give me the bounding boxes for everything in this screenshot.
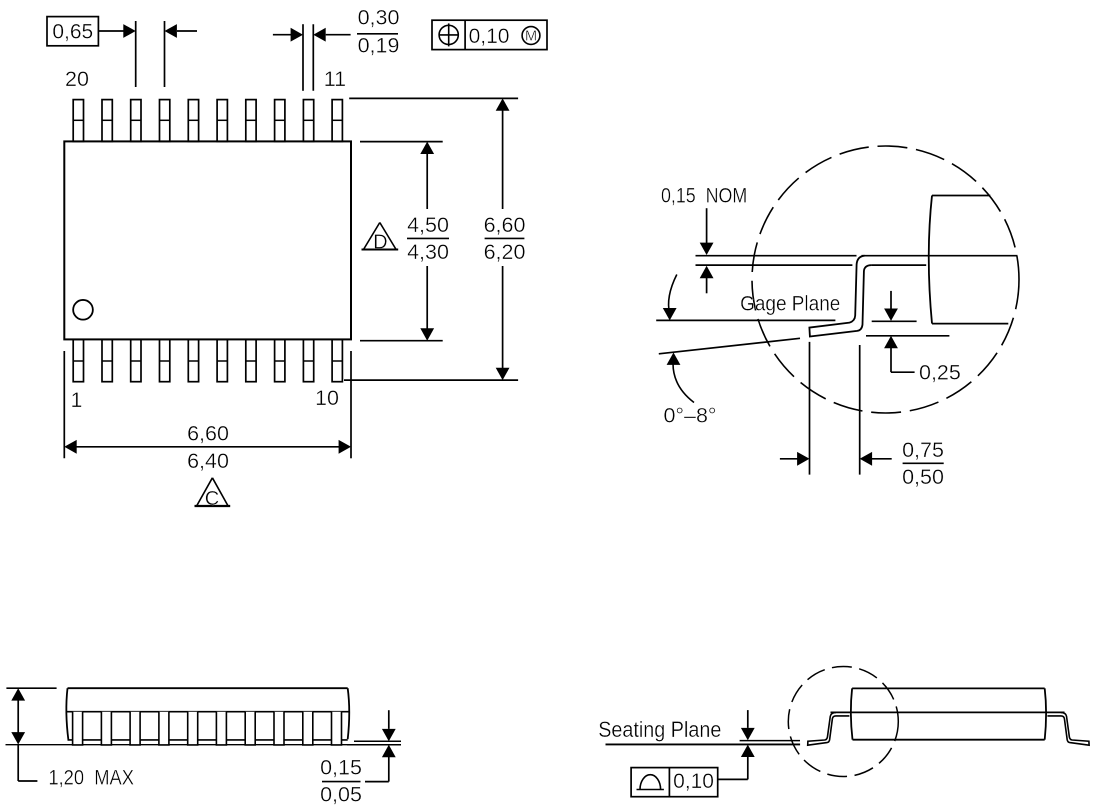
pin bottom row #1 [73, 339, 83, 381]
lead top surface line / extension [696, 255, 1018, 257]
svg-text:0,50: 0,50 [902, 465, 944, 489]
extension line pin18 center [135, 21, 137, 87]
lead bend outline [809, 256, 871, 337]
extension line body left [63, 351, 65, 458]
dimension line 6,60/6,20 [496, 98, 510, 380]
svg-text:0,10: 0,10 [469, 25, 510, 48]
0,15 NOM down arrow [700, 208, 714, 255]
end view body outline [851, 688, 1046, 739]
svg-text:0,65: 0,65 [52, 21, 93, 44]
dimension 0,30/0,19 right arrow [313, 28, 350, 42]
svg-text:0,19: 0,19 [358, 34, 400, 58]
svg-text:6,60: 6,60 [187, 422, 229, 446]
pin bottom row #7 [246, 339, 256, 381]
svg-text:0°–8°: 0°–8° [663, 404, 716, 428]
dimension line 4,50/4,30 [420, 142, 434, 341]
standoff down arrow [382, 710, 396, 741]
extension line body top left [6, 687, 56, 689]
svg-text:0,25: 0,25 [919, 361, 961, 385]
pin bottom row #8 [275, 339, 285, 381]
gage plane line right segment [872, 320, 917, 322]
seating up arrow [741, 745, 755, 780]
lead bottom surface extension line [696, 264, 853, 266]
pin bottom row #9 [303, 339, 313, 381]
seating upper short line [740, 740, 800, 742]
svg-text:0,75: 0,75 [902, 438, 944, 462]
end view right lead [1047, 712, 1089, 745]
extension line pin12 right edge [312, 24, 314, 91]
dimension 0,65 pitch: boxed value [47, 17, 98, 46]
standoff upper line [354, 740, 401, 742]
pin top row #14 [246, 100, 256, 142]
standoff lower line [347, 744, 401, 746]
side view pin 2 [101, 712, 111, 745]
side view pin 6 [216, 712, 226, 745]
svg-text:1: 1 [71, 388, 83, 412]
dimension 0,65 leader arrow [98, 24, 135, 38]
foot angle extension line 0-8 deg [659, 338, 800, 354]
svg-text:C: C [205, 488, 219, 510]
pin 1 index circle [73, 300, 93, 320]
angle leader arc to gage plane [663, 275, 677, 321]
package body top view [64, 141, 351, 339]
gage plane line [656, 319, 835, 321]
detail view dashed circle [752, 146, 1019, 413]
dimension 0,65 opposing arrow [165, 24, 198, 38]
side view lead plane line [66, 711, 351, 713]
dimension 0,30/0,19 left arrow [273, 28, 303, 42]
seating plane line [6, 744, 348, 746]
dimension text 0,75 over 0,50 [902, 438, 944, 489]
extension line top pin tips [349, 97, 518, 99]
side view body outline [66, 688, 349, 740]
dimension 0,75/0,50 left arrow [780, 452, 810, 466]
dimension 0,25 down arrow [884, 291, 898, 321]
side view pin 5 [188, 712, 198, 745]
svg-text:6,40: 6,40 [187, 449, 229, 473]
svg-text:6,20: 6,20 [484, 240, 526, 264]
svg-text:0,15: 0,15 [320, 756, 362, 780]
extension line body bottom [360, 340, 443, 342]
svg-text:M: M [525, 29, 537, 45]
pin bottom row #10 [332, 339, 342, 381]
dimension line 1,20 MAX [11, 688, 25, 744]
svg-text:1,20 MAX: 1,20 MAX [48, 766, 134, 790]
lead inner top line to package [871, 264, 926, 266]
angle leader arc to foot line [667, 353, 694, 403]
pin bottom row #2 [102, 339, 112, 381]
pin top row #12 [303, 100, 313, 142]
dimension text 4,50 over 4,30 [407, 213, 449, 264]
pin bottom row #5 [188, 339, 198, 381]
extension line bottom pin tips [344, 379, 518, 381]
pin bottom row #3 [131, 339, 141, 381]
svg-text:20: 20 [65, 67, 89, 91]
dimension text 0,15 over 0,05 [320, 756, 362, 807]
extension line pin12 left edge [302, 24, 304, 91]
extension line pin17 center [164, 21, 166, 87]
svg-text:D: D [373, 232, 387, 254]
side view pin 7 [245, 712, 255, 745]
pin top row #20 [73, 100, 83, 142]
svg-text:4,50: 4,50 [407, 213, 449, 237]
extension line body right [350, 351, 352, 458]
0,15 NOM up arrow [700, 266, 714, 294]
side view pin 8 [274, 712, 284, 745]
package body edge in detail [929, 196, 1009, 324]
extension line foot tip [809, 342, 811, 475]
leader to feature frame [718, 778, 748, 780]
dimension text 0,30 over 0,19 [357, 6, 399, 58]
svg-text:0,15 NOM: 0,15 NOM [661, 184, 747, 208]
feature control frame: seating plane 0,10 [631, 768, 718, 797]
side view pin 3 [130, 712, 140, 745]
pin top row #19 [102, 100, 112, 142]
pin top row #13 [275, 100, 285, 142]
dimension text 6,60 over 6,20 [484, 213, 526, 264]
extension line body top [360, 141, 443, 143]
revision flag triangle D [362, 223, 399, 254]
svg-text:Gage Plane: Gage Plane [740, 292, 840, 316]
svg-text:11: 11 [324, 67, 346, 91]
feature control frame: position 0,10 M [432, 20, 547, 49]
svg-text:0,10: 0,10 [673, 770, 714, 793]
seating plane reference line [606, 743, 801, 745]
svg-text:0,05: 0,05 [320, 783, 362, 807]
end view dashed circle [788, 667, 898, 777]
dimension 0,25 up arrow with leader [884, 336, 915, 372]
svg-text:0,30: 0,30 [358, 6, 400, 30]
revision flag triangle C [195, 478, 231, 510]
svg-text:10: 10 [315, 386, 339, 410]
svg-text:6,60: 6,60 [484, 213, 526, 237]
pin top row #15 [217, 100, 227, 142]
pin bottom row #4 [160, 339, 170, 381]
end view lead plane line [831, 711, 1065, 713]
dimension 0,75/0,50 right arrow [860, 452, 892, 466]
dimension text 6,60 over 6,40 [187, 422, 229, 474]
svg-text:4,30: 4,30 [407, 240, 449, 264]
pin top row #11 [332, 100, 342, 142]
seating down arrow [741, 710, 755, 740]
dimension line 6,60/6,40 [64, 440, 351, 454]
extension line gage intersection [859, 345, 861, 475]
side view pin 4 [159, 712, 169, 745]
side view pin 1 [73, 712, 83, 745]
lead tip plane line [866, 335, 949, 337]
svg-text:Seating Plane: Seating Plane [598, 717, 721, 742]
standoff up arrow with leader [365, 745, 396, 782]
pin top row #18 [131, 100, 141, 142]
pin top row #16 [188, 100, 198, 142]
end view left lead [808, 712, 850, 745]
side view pin 9 [303, 712, 313, 745]
pin top row #17 [160, 100, 170, 142]
pin bottom row #6 [217, 339, 227, 381]
leader 1,20 MAX [18, 745, 37, 782]
side view pin 10 [332, 712, 342, 745]
